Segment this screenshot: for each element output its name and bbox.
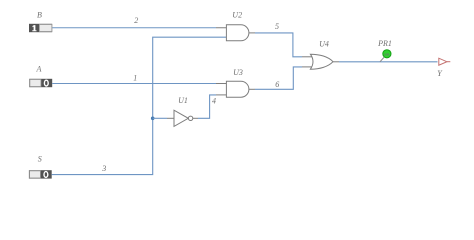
wire net 4 (U1 out to U3 input B) (198, 95, 216, 118)
pin U2 input A (216, 27, 227, 29)
junction dot on net 3 (151, 117, 155, 121)
svg-text:B: B (37, 11, 42, 20)
pin U3 output (249, 88, 255, 90)
svg-text:A: A (36, 65, 42, 74)
pin U3 input A (216, 83, 227, 85)
input switch A (29, 79, 52, 87)
pin U4 output (333, 61, 339, 63)
input switch S (29, 170, 52, 178)
pin U4 input B (302, 66, 313, 68)
wire net 2 (B to U2) (52, 27, 216, 29)
pin U1 input (167, 117, 174, 119)
svg-text:U1: U1 (178, 96, 188, 105)
wire net Y (U4 out to connector Y) (339, 61, 438, 63)
output connector Y (arrow) (439, 58, 451, 65)
wire net 5 (U2 out to U4 input A) (255, 33, 302, 57)
svg-text:PR1: PR1 (377, 39, 392, 48)
AND gate U2 (226, 25, 249, 41)
probe PR1 lead (380, 57, 384, 62)
inverter U1 (174, 110, 193, 126)
pin U4 input A (302, 56, 313, 58)
probe PR1 (383, 50, 391, 58)
pin U3 input B (216, 94, 227, 96)
svg-text:6: 6 (275, 80, 279, 89)
svg-text:U2: U2 (232, 11, 242, 20)
svg-text:S: S (38, 155, 42, 164)
svg-text:3: 3 (101, 164, 106, 173)
svg-text:4: 4 (212, 97, 216, 106)
AND gate U3 (226, 81, 249, 97)
OR gate U4 (310, 54, 333, 69)
svg-text:1: 1 (133, 74, 137, 83)
wire net 3 branch to U1 input (153, 117, 167, 119)
svg-text:U4: U4 (319, 39, 329, 48)
wire net 1 (A to U3) (52, 83, 216, 85)
wire net 6 (U3 out to U4 input B) (255, 67, 302, 89)
svg-text:U3: U3 (233, 68, 243, 77)
wire net 3 (S up to U2 input B) (52, 37, 227, 174)
pin U2 output (249, 32, 255, 34)
svg-text:on: on (384, 52, 389, 57)
pin U1 output (193, 117, 198, 119)
svg-text:2: 2 (134, 16, 138, 25)
svg-text:5: 5 (275, 22, 279, 31)
input switch B (29, 24, 52, 32)
